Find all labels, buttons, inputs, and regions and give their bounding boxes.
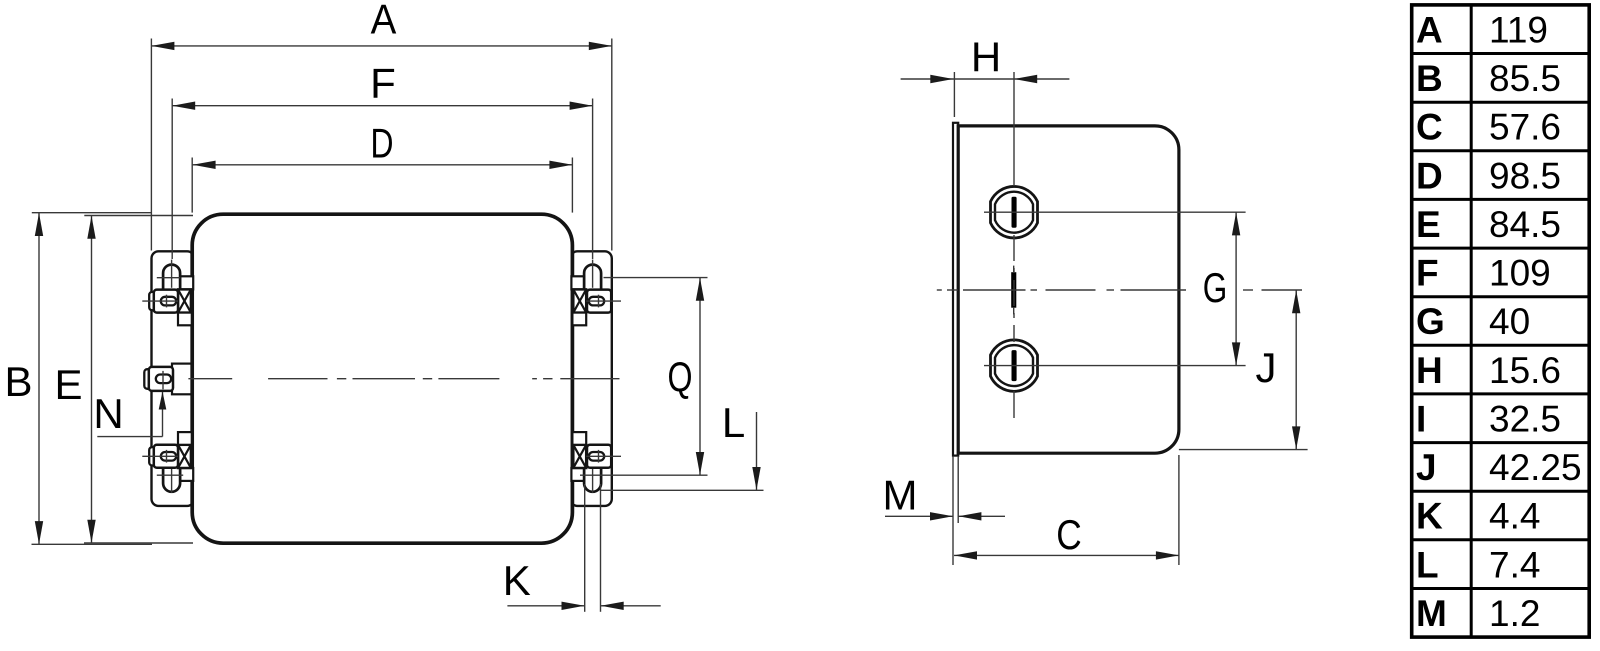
svg-text:C: C (1056, 511, 1082, 558)
svg-text:84.5: 84.5 (1489, 204, 1561, 245)
bottom-left arch vertical centerline (171, 450, 173, 493)
dimension M extension lines (953, 457, 958, 565)
dimension B line (35, 213, 43, 544)
svg-text:N: N (93, 390, 123, 437)
top-left terminal crosshair v (166, 295, 168, 308)
svg-text:K: K (1416, 496, 1443, 537)
dimension F line (172, 102, 592, 110)
dimension B extension lines (32, 213, 153, 545)
dimension J extension line (1179, 449, 1308, 451)
svg-text:C: C (1416, 107, 1443, 148)
bottom-right terminal detent hole (589, 452, 604, 461)
svg-text:4.4: 4.4 (1489, 496, 1540, 537)
svg-text:M: M (883, 472, 918, 519)
dimension F label (370, 60, 396, 107)
left mounting bracket plate (152, 251, 195, 506)
side view top slotted hole (984, 186, 1043, 238)
bottom-left terminal detent hole (161, 452, 176, 461)
svg-text:B: B (4, 358, 32, 405)
top-left terminal detent hole (161, 297, 176, 306)
svg-text:K: K (503, 557, 531, 604)
bottom-right clamp X-box (573, 445, 586, 468)
dimension E label (54, 361, 82, 408)
svg-text:G: G (1203, 264, 1228, 311)
bottom-left mounting slot arch (163, 468, 180, 492)
dimension D extension lines (192, 158, 572, 213)
bottom-left terminal blade (149, 445, 178, 468)
dimension C line (954, 551, 1179, 559)
top-right arch vertical centerline (592, 260, 594, 288)
dimension Q label (668, 353, 693, 400)
bottom-right terminal blade (587, 445, 611, 468)
top-left terminal blade (149, 290, 178, 313)
bottom-right terminal crosshair h (586, 455, 621, 457)
dimension K extension lines (585, 484, 601, 612)
dimension Q extension lines (580, 278, 708, 476)
svg-text:G: G (1416, 301, 1445, 342)
bottom-left terminal crosshair v (166, 450, 168, 463)
svg-text:40: 40 (1489, 301, 1530, 342)
bottom-left tab step (arch to body) (180, 468, 193, 481)
dimension E extension lines (84, 216, 193, 544)
top-left tab step (arch to body) (180, 276, 193, 289)
svg-text:85.5: 85.5 (1489, 58, 1561, 99)
bottom-right arch vertical centerline (592, 450, 594, 493)
dimension A label (371, 0, 397, 43)
svg-text:32.5: 32.5 (1489, 398, 1561, 439)
top-left clamp X-box (178, 289, 191, 312)
dimension M line (885, 512, 1005, 520)
right mounting bracket plate (570, 251, 611, 506)
svg-text:A: A (371, 0, 397, 43)
svg-text:D: D (1416, 155, 1443, 196)
top-right terminal detent hole (589, 297, 604, 306)
top-right terminal crosshair v (598, 295, 600, 308)
svg-text:1.2: 1.2 (1489, 593, 1540, 634)
svg-text:57.6: 57.6 (1489, 107, 1561, 148)
svg-text:J: J (1416, 447, 1437, 488)
dimension table text (1416, 9, 1582, 634)
svg-text:H: H (1416, 350, 1443, 391)
dimension D line (193, 161, 573, 169)
middle terminal lip cutout (172, 364, 194, 395)
svg-text:I: I (1416, 398, 1426, 439)
top-left mounting slot arch (163, 265, 180, 290)
dimension table grid (1412, 5, 1590, 637)
dimension M label (883, 472, 918, 519)
dimension J line (1292, 290, 1300, 449)
middle terminal blade tip (144, 369, 151, 389)
middle terminal vertical tick (162, 371, 164, 389)
middle terminal detent hole (156, 375, 171, 384)
svg-text:98.5: 98.5 (1489, 155, 1561, 196)
dimension H line (901, 75, 1070, 83)
side view flange plate (edge-on) (953, 123, 958, 456)
filter body outline (192, 214, 572, 543)
top-right step below X-box (572, 313, 586, 326)
side view bottom slotted hole (984, 340, 1043, 392)
dimension L label (722, 399, 745, 446)
svg-text:42.25: 42.25 (1489, 447, 1582, 488)
dimension C label (1056, 511, 1082, 558)
top-right tab step (body to arch) (571, 276, 584, 289)
svg-text:L: L (722, 399, 745, 446)
svg-text:15.6: 15.6 (1489, 350, 1561, 391)
side view horizontal centerline (937, 289, 1302, 291)
svg-text:D: D (371, 120, 394, 167)
front view horizontal centerline (188, 378, 619, 380)
bottom-left clamp X-box (178, 445, 191, 468)
dimension E line (87, 216, 95, 543)
top-right clamp X-box (573, 289, 586, 312)
top-left arch horizontal centerline (157, 277, 180, 279)
top-right terminal crosshair h (586, 300, 621, 302)
bottom-left step above X-box (178, 432, 192, 445)
dimension C extension line right (1178, 455, 1180, 565)
svg-text:B: B (1416, 58, 1443, 99)
dimension L extension line (601, 489, 764, 491)
dimension K line (507, 602, 660, 610)
dimension Q line (696, 278, 704, 475)
svg-text:E: E (54, 361, 82, 408)
dimension G extension lines (1043, 212, 1246, 365)
top-right terminal blade (587, 290, 611, 313)
dimension K label (503, 557, 531, 604)
leader N label (93, 390, 123, 437)
dimension G line (1232, 212, 1240, 365)
top-right mounting slot arch (584, 265, 601, 290)
bottom-right terminal crosshair v (598, 450, 600, 463)
bottom-right tab step (body to arch) (571, 468, 584, 481)
dimension J label (1256, 344, 1277, 391)
side view center slot mark (1011, 266, 1016, 315)
dimension H extension lines (954, 72, 1014, 160)
svg-text:109: 109 (1489, 253, 1551, 294)
svg-text:E: E (1416, 204, 1441, 245)
middle terminal blade (149, 367, 173, 391)
svg-text:Q: Q (668, 353, 693, 400)
bottom-left terminal crosshair h (142, 455, 178, 457)
bottom-right mounting slot arch (584, 468, 601, 492)
svg-text:7.4: 7.4 (1489, 544, 1540, 585)
dimension F extension lines (172, 99, 592, 260)
top-left terminal crosshair h (142, 300, 178, 302)
svg-text:J: J (1256, 344, 1277, 391)
dimension D label (371, 120, 394, 167)
dimension L line (752, 412, 760, 490)
side view hole vertical centerline (1013, 160, 1015, 418)
dimension B label (4, 358, 32, 405)
bottom-right step above X-box (572, 432, 586, 445)
svg-text:L: L (1416, 544, 1439, 585)
dimension G label (1203, 264, 1228, 311)
dimension A extension lines (151, 39, 611, 251)
side view body outline (958, 126, 1179, 453)
dimension A line (151, 42, 611, 50)
leader N line (97, 392, 166, 437)
svg-text:119: 119 (1489, 9, 1548, 50)
bottom-left arch horizontal centerline (157, 474, 183, 476)
svg-text:F: F (370, 60, 396, 107)
svg-text:H: H (971, 34, 1001, 81)
top-left arch vertical centerline (171, 260, 173, 288)
svg-text:F: F (1416, 253, 1439, 294)
svg-text:M: M (1416, 593, 1447, 634)
top-left step below X-box (178, 313, 192, 326)
svg-text:A: A (1416, 9, 1443, 50)
dimension H label (971, 34, 1001, 81)
